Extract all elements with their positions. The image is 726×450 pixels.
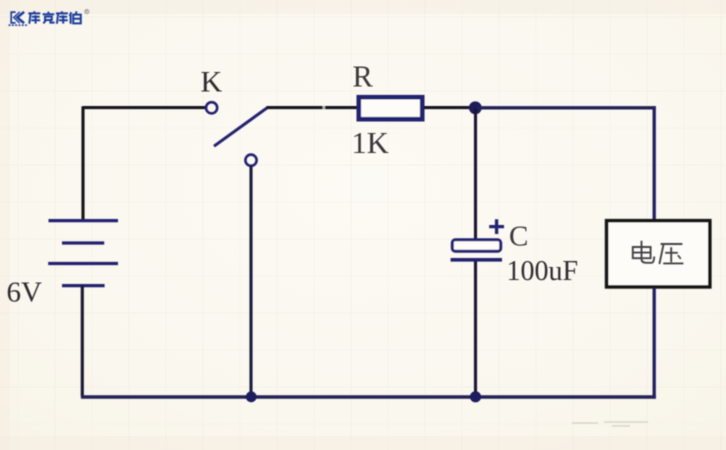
junction dot bottom left [246,391,257,402]
wire blade pivot to resistor [267,106,358,109]
svg-text:1K: 1K [352,126,389,160]
wire right vertical upper [653,106,656,220]
svg-text:K: K [201,66,223,99]
svg-text:R: R [353,60,374,94]
svg-text:100uF: 100uF [507,256,579,287]
wire left vertical upper [81,106,84,220]
svg-text:C: C [509,221,528,253]
wire break artifact [323,106,325,109]
battery B1 plate 2 (short) [62,241,104,244]
subtle edge tint [0,0,726,14]
switch K terminal 2 [245,155,256,166]
resistor R body [359,97,422,119]
battery B1 plate 1 (long) [49,219,119,222]
svg-text:6V: 6V [7,277,43,309]
logo 库克库伯 [9,11,81,25]
smudge bottom right [572,422,648,426]
junction dot top [469,101,482,114]
switch K blade [214,107,268,146]
label 电压 [633,241,684,264]
wire battery bottom to rail [81,286,84,397]
logo registered mark [85,10,89,14]
wire junction to right corner [475,106,656,109]
wire bottom rail [81,395,656,398]
switch K terminal 1 [206,102,217,113]
battery B1 plate 4 (short) [62,284,105,287]
wire resistor to junction [424,106,476,109]
wire right vertical lower [653,288,656,399]
battery B1 plate 3 (long) [48,262,118,265]
junction dot bottom middle [470,391,481,402]
capacitor C top plate [452,240,500,251]
voltmeter box [607,221,710,287]
wire capacitor lower [474,262,477,398]
capacitor C plus sign [489,219,504,234]
wire top-left horizontal [83,106,206,109]
wire switch terminal 2 down to rail [249,166,252,397]
capacitor C bottom plate [451,258,502,262]
wire capacitor branch upper [474,108,477,240]
